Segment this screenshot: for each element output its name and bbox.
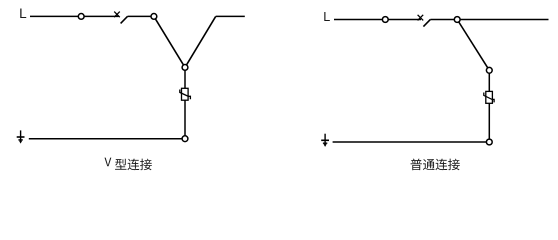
terminal circle 2 (load side): [454, 17, 460, 23]
terminal circle 1 (line side): [382, 17, 388, 23]
wire: varistor to bottom terminal: [488, 103, 490, 142]
varistor RV strike-through: [484, 93, 494, 103]
wire: L to terminal 1: [334, 19, 385, 21]
wire: L to terminal 1: [30, 15, 81, 17]
bottom terminal circle (earth side): [182, 136, 188, 142]
terminal circle 1 (line side): [78, 14, 84, 20]
caption: 普通连接 (ordinary connection): [411, 159, 460, 171]
junction node circle: [182, 65, 188, 71]
circuit breaker QF: switch blade: [121, 16, 128, 23]
wire: breaker to terminal 2: [430, 19, 457, 21]
junction node circle: [486, 67, 492, 73]
wire: V-connection up lead (junction to load side): [185, 16, 216, 67]
terminal circle 2 (load side): [151, 14, 157, 20]
wire: SPD branch lead (terminal 2 to junction): [457, 20, 489, 71]
ground (earth electrode): [17, 130, 25, 143]
wire: junction down to varistor: [184, 67, 186, 88]
wire: junction down to varistor: [488, 70, 490, 91]
bottom terminal circle (earth side): [486, 139, 492, 145]
circuit breaker QF: fixed-contact cross: [418, 15, 424, 21]
circuit breaker QF: switch blade: [423, 19, 430, 26]
wire: earth bus (PE line): [29, 138, 185, 140]
wire: terminal 1 to breaker fixed contact: [81, 15, 118, 17]
wire: V-connection down lead (terminal 2 to junction): [154, 16, 185, 67]
wire: terminal 1 to breaker fixed contact: [385, 19, 421, 21]
circuit breaker QF: fixed-contact cross: [114, 12, 120, 18]
wire: varistor to bottom terminal: [184, 100, 186, 139]
caption: V 型连接 (V-type connection): [105, 158, 152, 171]
ground (earth electrode): [321, 134, 329, 147]
wire: load-side line: [216, 15, 245, 17]
svg-text:L: L: [323, 10, 330, 24]
varistor RV strike-through: [180, 90, 191, 100]
wire: earth bus (PE line): [333, 141, 490, 143]
wire: breaker to terminal 2: [128, 15, 154, 17]
varistor RV (SPD) body: [182, 88, 189, 100]
varistor RV (SPD) body: [486, 91, 493, 103]
svg-text:L: L: [19, 6, 27, 21]
wire: load-side line: [457, 19, 548, 21]
